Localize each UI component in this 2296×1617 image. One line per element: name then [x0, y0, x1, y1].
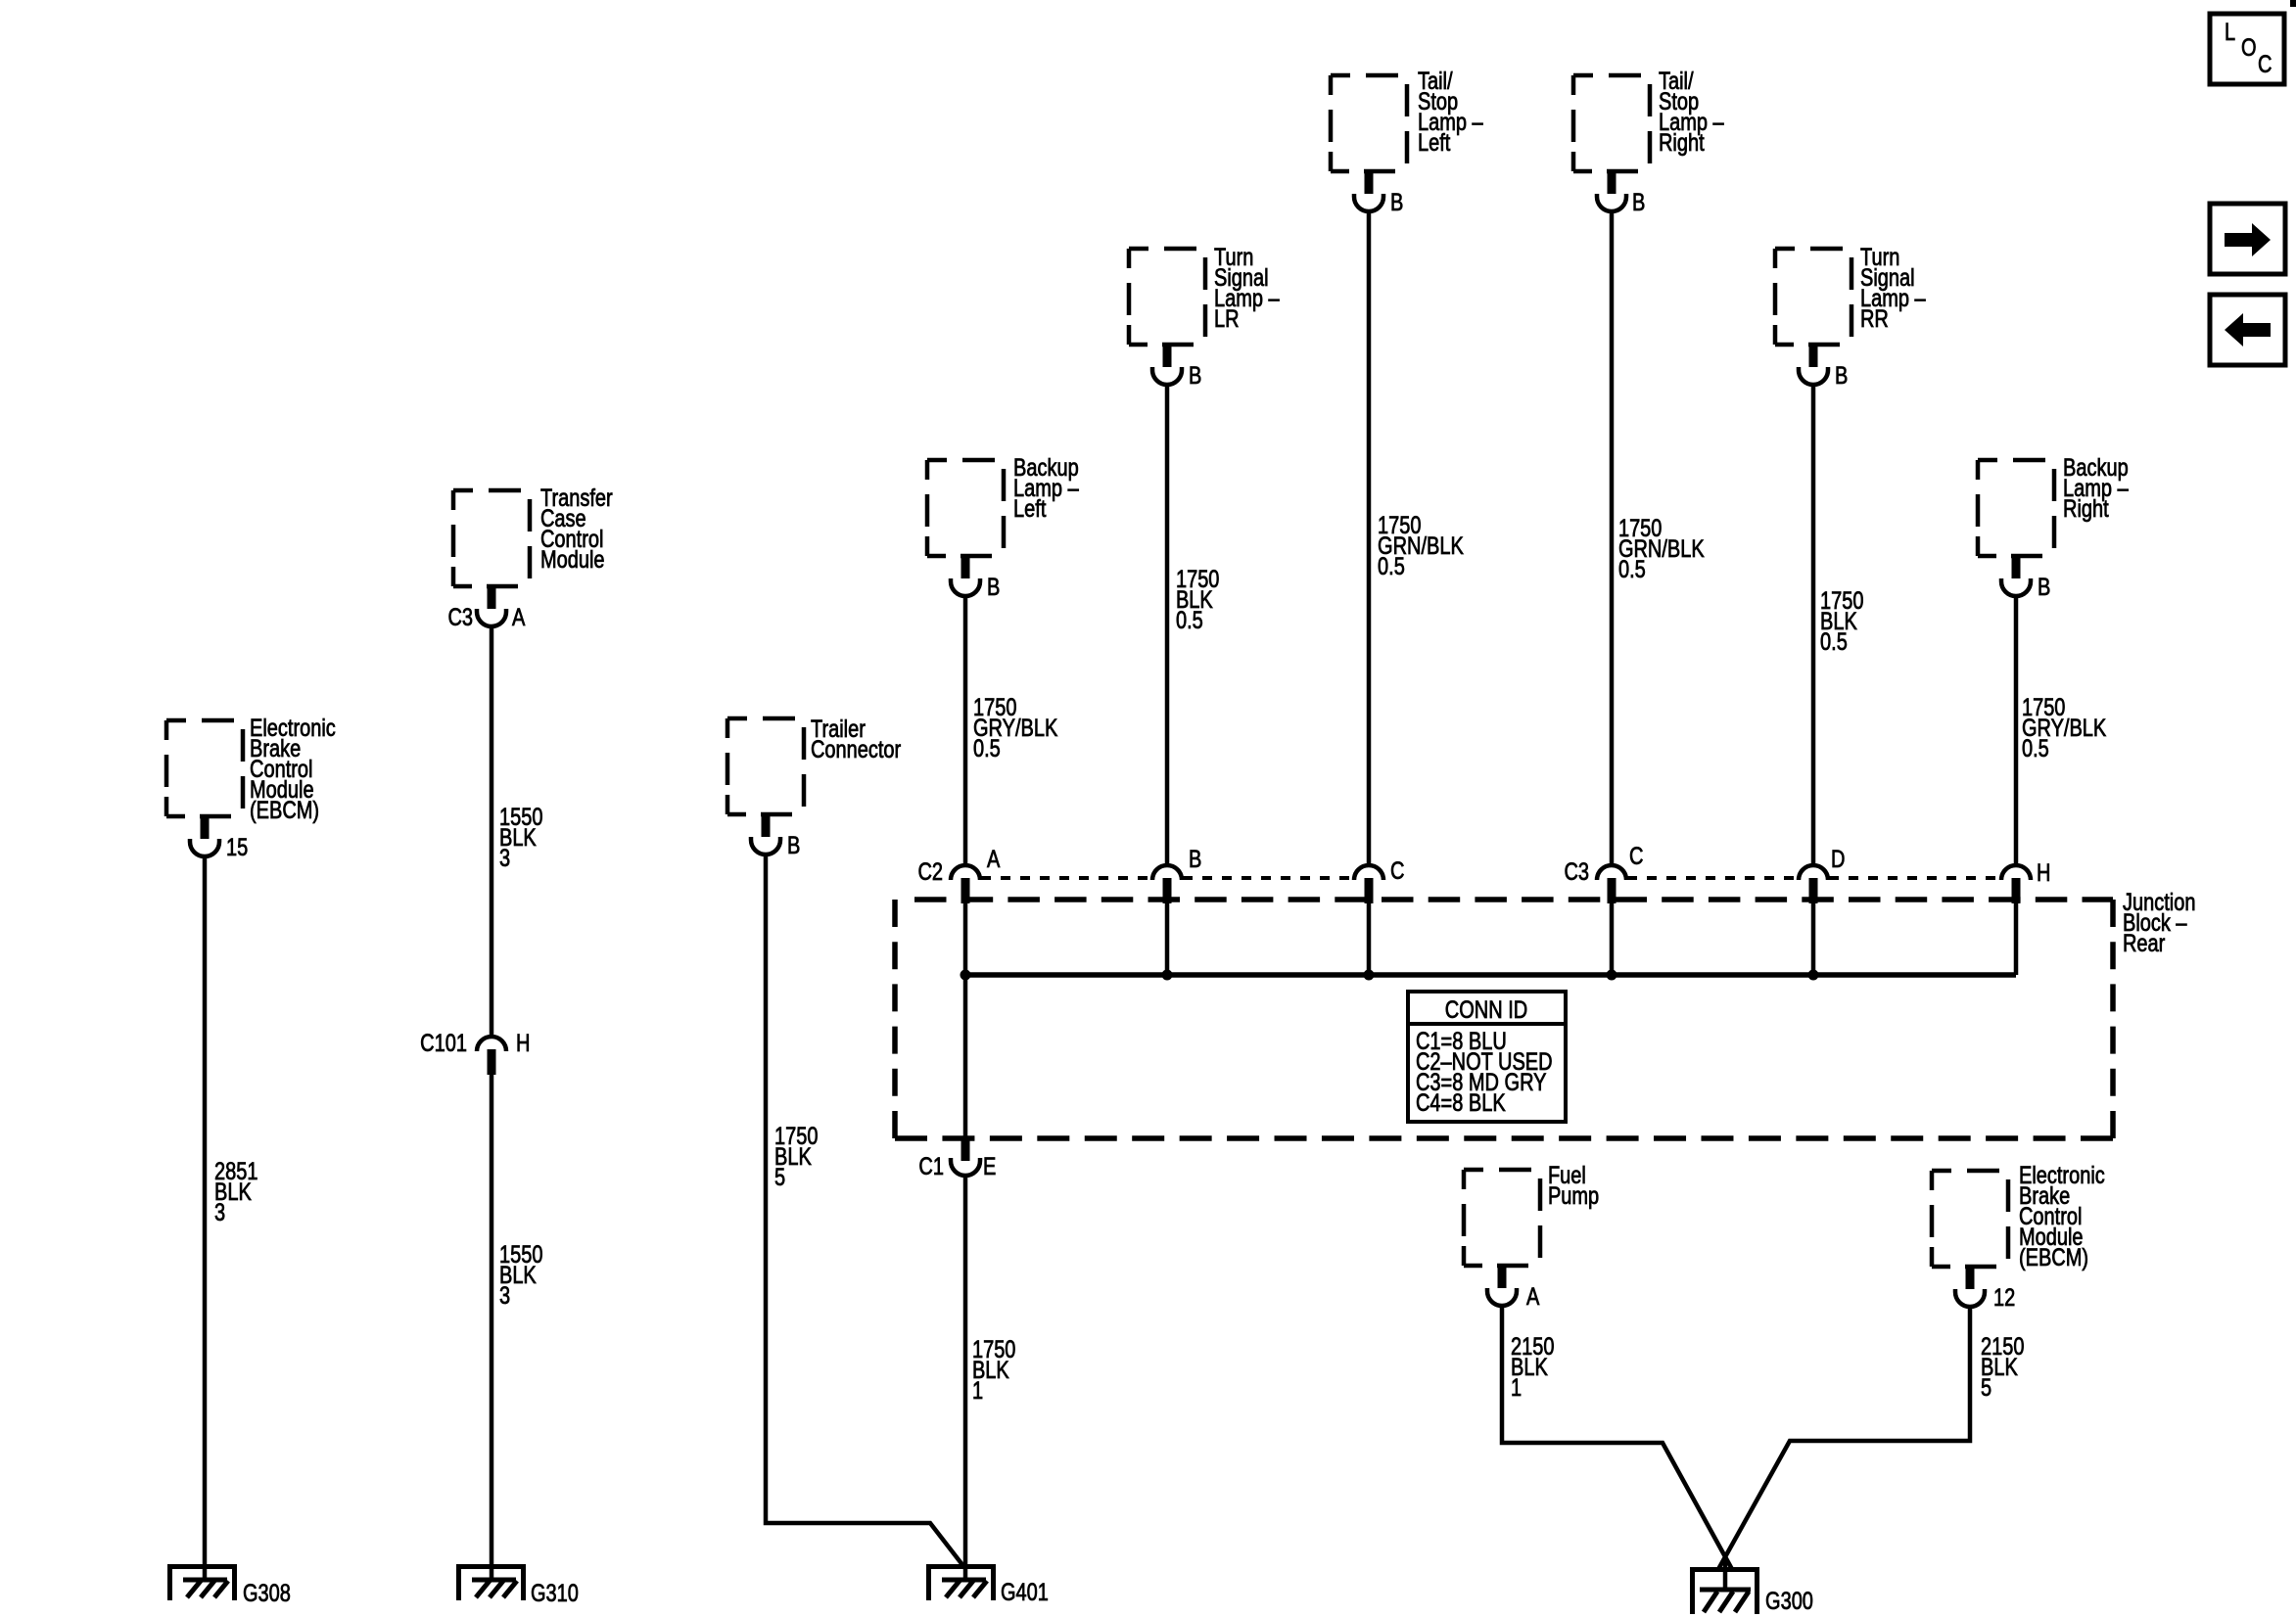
svg-text:Pump: Pump [1548, 1182, 1599, 1210]
svg-text:5: 5 [1981, 1374, 1991, 1402]
svg-text:0.5: 0.5 [1176, 607, 1203, 634]
lamp: Turn Signal Lamp LR dashed box [1129, 249, 1205, 345]
svg-text:C2: C2 [917, 858, 943, 886]
svg-text:0.5: 0.5 [2022, 735, 2049, 762]
ground G308 [167, 1564, 237, 1600]
svg-text:12: 12 [1993, 1284, 2015, 1312]
wire from bus down to connector C1 [963, 975, 968, 1138]
connector pin 12 at EBCM right [1955, 1267, 1985, 1307]
svg-text:CONN ID: CONN ID [1445, 996, 1527, 1024]
svg-text:Right: Right [1659, 129, 1705, 157]
svg-text:A: A [1526, 1283, 1540, 1311]
connector C2 pin A (junction block) [951, 865, 980, 903]
wire 1750 BLK 1 from C1 to G401 [963, 1177, 968, 1582]
svg-text:B: B [2038, 574, 2050, 601]
svg-text:Left: Left [1418, 129, 1451, 157]
connector pin B at Backup Lamp Right [2001, 556, 2031, 596]
svg-text:Rear: Rear [2123, 930, 2166, 957]
bus wire inside junction block [965, 972, 2016, 978]
svg-text:O: O [2241, 34, 2257, 62]
wire stub into G300 [1723, 1558, 1728, 1590]
svg-text:5: 5 [774, 1164, 785, 1191]
connector C1 pin E (junction block bottom) [951, 1137, 980, 1176]
module: Electronic Brake Control Module (EBCM) left dashed box [166, 720, 243, 816]
ground G310 [456, 1564, 526, 1600]
svg-text:0.5: 0.5 [1378, 553, 1405, 580]
component: Trailer Connector dashed box [727, 718, 804, 814]
svg-text:Left: Left [1013, 495, 1047, 523]
junction dots on bus [961, 970, 971, 981]
svg-text:Right: Right [2063, 495, 2109, 523]
svg-text:(EBCM): (EBCM) [2019, 1244, 2088, 1271]
wire 1750 GRN/BLK right [1610, 212, 1615, 864]
svg-text:(EBCM): (EBCM) [250, 797, 319, 824]
right arrow legend box [2210, 204, 2285, 274]
left arrow legend box [2210, 295, 2285, 365]
dashed connector row C3 (C-D-H) [1627, 876, 2000, 880]
wire 2150 BLK 1 from fuel pump to G300 [1502, 1307, 1733, 1571]
connector pin B at Turn Signal Lamp LR [1152, 345, 1182, 385]
ground G300 [1690, 1567, 1759, 1614]
svg-text:0.5: 0.5 [1618, 556, 1646, 583]
module: Transfer Case Control Module dashed box [453, 490, 530, 586]
connector pin H (junction block) [2001, 865, 2031, 903]
wire 1750 BLK 5 from trailer connector to G401 [766, 855, 963, 1566]
svg-text:3: 3 [214, 1199, 225, 1226]
lamp: Tail/Stop Lamp Left dashed box [1331, 75, 1407, 171]
connector C3 pin A at Transfer Case Control Module [477, 586, 506, 626]
ground G401 [926, 1564, 996, 1600]
svg-text:1: 1 [1511, 1374, 1522, 1402]
svg-text:1: 1 [972, 1377, 983, 1405]
wire 1750 GRN/BLK left [1367, 212, 1372, 864]
svg-text:G310: G310 [531, 1580, 579, 1607]
svg-text:G401: G401 [1001, 1579, 1049, 1606]
svg-text:E: E [983, 1153, 996, 1180]
lamp: Turn Signal Lamp RR dashed box [1775, 249, 1851, 345]
lamp: Tail/Stop Lamp Right dashed box [1573, 75, 1650, 171]
svg-text:0.5: 0.5 [973, 735, 1001, 762]
svg-text:3: 3 [499, 845, 510, 872]
svg-text:B: B [1189, 846, 1201, 873]
wire 1550 BLK upper segment [490, 627, 494, 1036]
wire 1550 BLK lower segment [490, 1070, 494, 1582]
lamp: Backup Lamp Right dashed box [1978, 460, 2054, 556]
connector pin C (junction block) [1354, 865, 1383, 903]
wire 2851 BLK from EBCM pin 15 to G308 [203, 857, 208, 1582]
svg-text:B: B [1632, 189, 1645, 216]
wire 1750 GRY/BLK left [963, 597, 968, 864]
svg-text:Module: Module [540, 546, 605, 574]
connector C3 pin C (junction block) [1597, 865, 1626, 903]
connector pin 15 at EBCM left [190, 816, 219, 856]
connector pin B at Turn Signal Lamp RR [1799, 345, 1828, 385]
wire 1750 GRY/BLK right [2014, 597, 2019, 864]
CONN ID table [1408, 992, 1566, 1122]
svg-text:LR: LR [1214, 305, 1240, 333]
wire 2150 BLK 5 from EBCM to G300 [1717, 1308, 1970, 1571]
svg-text:H: H [2037, 859, 2050, 887]
inline connector C101 pin H [477, 1037, 506, 1075]
svg-text:B: B [1390, 189, 1403, 216]
connector pin D (junction block) [1799, 865, 1828, 903]
svg-text:C3: C3 [447, 604, 473, 631]
LOC legend box [2210, 14, 2284, 84]
component: Fuel Pump dashed box [1464, 1170, 1540, 1266]
svg-text:0.5: 0.5 [1820, 628, 1848, 656]
svg-text:C1: C1 [918, 1153, 944, 1180]
connector pin B at Tail/Stop Lamp Right [1597, 171, 1626, 211]
connector pin B (junction block) [1152, 865, 1182, 903]
svg-text:B: B [1835, 362, 1848, 390]
dashed connector row C2 (A-B-C) [981, 876, 1353, 880]
svg-text:C3: C3 [1564, 858, 1589, 886]
svg-text:C101: C101 [420, 1030, 467, 1057]
svg-text:L: L [2225, 19, 2235, 46]
module: Electronic Brake Control Module (EBCM) right dashed box [1932, 1171, 2008, 1267]
svg-text:RR: RR [1860, 305, 1889, 333]
scan artifact top right corner [2290, 0, 2296, 7]
lamp: Backup Lamp Left dashed box [927, 460, 1004, 556]
wires from row connectors into junction block [965, 898, 2016, 975]
svg-text:C4=8 BLK: C4=8 BLK [1416, 1089, 1506, 1117]
svg-text:D: D [1831, 846, 1845, 873]
svg-text:C: C [1629, 843, 1643, 870]
svg-text:C: C [2258, 51, 2272, 78]
svg-text:A: A [987, 846, 1001, 873]
connector pin B at Tail/Stop Lamp Left [1354, 171, 1383, 211]
svg-text:H: H [516, 1030, 530, 1057]
svg-text:15: 15 [226, 834, 248, 861]
connector pin B at Trailer Connector [751, 814, 780, 855]
svg-text:C: C [1390, 857, 1404, 885]
svg-text:A: A [512, 604, 526, 631]
svg-text:B: B [987, 574, 1000, 601]
wire 1750 BLK 0.5 LR [1165, 386, 1170, 864]
svg-text:B: B [787, 832, 800, 859]
svg-text:G300: G300 [1765, 1588, 1813, 1615]
svg-text:G308: G308 [243, 1580, 291, 1607]
junction block dashed outline [895, 900, 2113, 1138]
connector pin B at Backup Lamp Left [951, 556, 980, 596]
svg-text:3: 3 [499, 1282, 510, 1310]
wire 1750 BLK 0.5 RR [1811, 386, 1816, 864]
connector pin A at Fuel Pump [1487, 1266, 1517, 1306]
svg-text:B: B [1189, 362, 1201, 390]
svg-text:Connector: Connector [811, 736, 902, 763]
